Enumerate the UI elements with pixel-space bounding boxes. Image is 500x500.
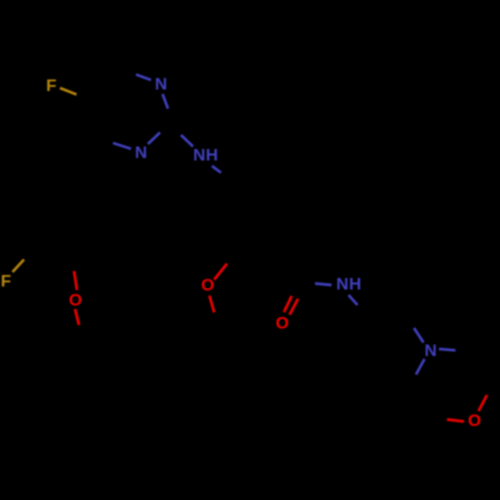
wire Caryl-O (red half)	[214, 264, 227, 280]
wire Caryl-O (red half)	[74, 271, 77, 290]
wire NH-C1' (blue half)	[212, 166, 221, 173]
svg-text:N: N	[155, 75, 167, 94]
svg-text:O: O	[201, 276, 214, 295]
wire C6morph-N (blue half)	[416, 359, 425, 375]
wire C(=O)-NH (blue half)	[315, 284, 332, 286]
wire C2-NH (blue half)	[181, 135, 193, 147]
svg-text:F: F	[46, 76, 56, 95]
wire C2-N3 (blue half)	[148, 133, 160, 145]
bond F-C5 (olive half)	[60, 88, 77, 95]
wire C3morph-O (red half)	[479, 395, 488, 411]
wire C4-N3 (blue half)	[113, 143, 131, 149]
svg-text:O: O	[69, 291, 82, 310]
svg-text:F: F	[1, 271, 11, 290]
wire N1-C2 (blue half)	[163, 94, 169, 109]
wire NH-CH2 (blue half)	[349, 295, 358, 305]
svg-text:N: N	[135, 143, 147, 162]
wire O-CH3 (red half)	[75, 309, 79, 325]
wire O-CH3 (red half)	[209, 296, 214, 313]
wire C=O double bond line 1 (red half)	[284, 296, 292, 312]
svg-text:O: O	[468, 411, 481, 430]
wire N-C2morph (blue half)	[439, 349, 456, 350]
bond F-Caryl (olive half)	[13, 260, 25, 273]
svg-text:N: N	[193, 145, 205, 164]
svg-text:O: O	[276, 313, 289, 332]
svg-text:N: N	[424, 341, 436, 360]
svg-text:H: H	[349, 275, 361, 294]
wire CH2-N (blue half)	[414, 328, 424, 343]
wire C5morph-O (red half)	[447, 420, 464, 422]
svg-text:H: H	[206, 145, 218, 164]
wire C=O double bond line 2 (red half)	[290, 299, 298, 315]
wire C6-N1 (blue half)	[136, 75, 151, 81]
svg-text:N: N	[336, 275, 348, 294]
